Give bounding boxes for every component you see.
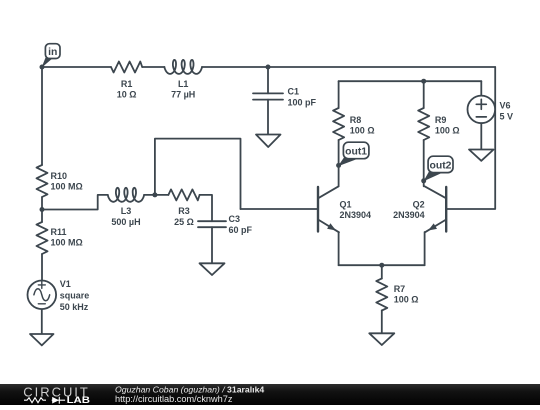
resistor R1 [111, 62, 142, 73]
node in dot [40, 65, 45, 70]
resistor R3 [155, 194, 169, 196]
capacitor C1 [253, 93, 283, 99]
feedback box wire [155, 139, 241, 209]
node R7 tap [379, 263, 384, 268]
ground below V1 [30, 334, 54, 345]
svg-text:25 Ω: 25 Ω [174, 217, 194, 227]
resistor R9 [423, 81, 425, 108]
voltage source V6 [480, 81, 482, 95]
flag out2 [424, 156, 454, 181]
svg-text:5 V: 5 V [500, 112, 514, 122]
ground below C3 [200, 263, 225, 275]
svg-text:2N3904: 2N3904 [340, 210, 372, 220]
svg-text:100 MΩ: 100 MΩ [51, 237, 83, 247]
flag out1 [338, 142, 369, 166]
svg-text:100 Ω: 100 Ω [394, 294, 419, 304]
left column wire [41, 67, 43, 165]
svg-text:V1: V1 [60, 279, 71, 289]
svg-text:square: square [60, 291, 90, 301]
resistor R11 [37, 222, 48, 254]
transistor Q2 [445, 187, 447, 232]
svg-text:LAB: LAB [67, 395, 91, 405]
svg-text:in: in [48, 47, 57, 58]
node C1 tap [266, 65, 271, 70]
logo resistor-diode glyph [24, 397, 65, 404]
svg-text:out2: out2 [430, 161, 452, 172]
emitter arrow Q1 [327, 223, 336, 230]
svg-text:R1: R1 [121, 79, 133, 89]
svg-text:L1: L1 [178, 79, 189, 89]
resistor R8 [338, 81, 340, 108]
node out1 [336, 163, 341, 168]
source V1 [28, 281, 57, 310]
svg-text:77 µH: 77 µH [171, 90, 195, 100]
svg-text:R7: R7 [394, 284, 406, 294]
resistor R10 [37, 165, 48, 197]
svg-text:out1: out1 [345, 147, 367, 158]
svg-text:R11: R11 [51, 227, 67, 237]
svg-text:100 Ω: 100 Ω [350, 125, 375, 135]
node R9 tap [421, 79, 426, 84]
ground below C1 [256, 135, 281, 148]
svg-text:100 Ω: 100 Ω [435, 125, 460, 135]
wire top rail [42, 66, 495, 68]
svg-text:100 MΩ: 100 MΩ [51, 181, 83, 191]
svg-text:50 kHz: 50 kHz [60, 302, 89, 312]
svg-text:10 Ω: 10 Ω [117, 90, 137, 100]
svg-text:R9: R9 [435, 115, 447, 125]
flag in [42, 44, 61, 68]
svg-text:Q2: Q2 [413, 200, 425, 210]
inductor L1 [164, 60, 202, 74]
svg-text:500 µH: 500 µH [111, 217, 140, 227]
wire jog to L3 [42, 195, 108, 210]
svg-text:R8: R8 [350, 115, 362, 125]
svg-text:V6: V6 [500, 101, 511, 111]
wire L3 to node [144, 194, 155, 196]
transistor Q1 [241, 208, 319, 210]
capacitor C3 [198, 221, 226, 227]
svg-text:R10: R10 [51, 171, 68, 181]
svg-text:100 pF: 100 pF [288, 98, 317, 108]
svg-text:http://circuitlab.com/cknwh7z: http://circuitlab.com/cknwh7z [115, 394, 233, 404]
svg-text:R3: R3 [178, 206, 190, 216]
wire C1 stem [267, 67, 269, 135]
svg-text:2N3904: 2N3904 [393, 210, 425, 220]
wire rail V+ [339, 80, 482, 82]
ground below R7 [369, 333, 394, 345]
svg-text:C3: C3 [229, 214, 241, 224]
emitter arrow Q2 [428, 223, 437, 230]
svg-text:C1: C1 [288, 87, 300, 97]
node L3/R3 [152, 192, 157, 197]
inductor L3 [108, 188, 144, 202]
svg-text:Q1: Q1 [340, 200, 352, 210]
wire right side to Q2 base [446, 67, 495, 209]
svg-text:L3: L3 [121, 206, 132, 216]
emitter rail [339, 264, 425, 266]
svg-text:60 pF: 60 pF [229, 225, 253, 235]
node R10/R11 [40, 207, 45, 212]
node out2 [421, 178, 426, 183]
ground below V6 [469, 150, 494, 161]
resistor R7 [376, 279, 387, 311]
